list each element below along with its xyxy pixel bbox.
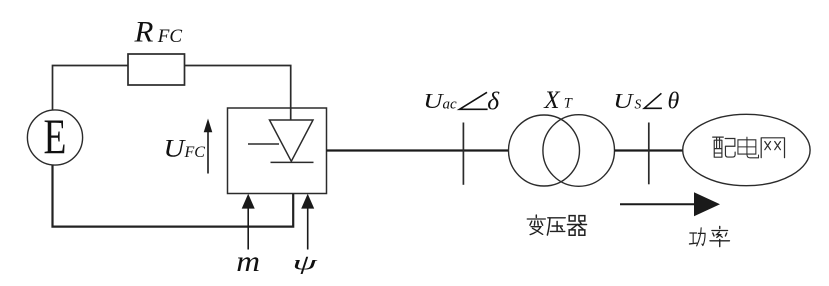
svg-text:θ: θ	[668, 89, 680, 115]
power label CJK gong-lv (power)	[689, 226, 729, 246]
wire converter to transformer (ac bus)	[327, 149, 509, 151]
transformer label CJK bian-ya-qi (transformer)	[527, 215, 586, 235]
node bus bar Us	[648, 123, 650, 185]
svg-text:FC: FC	[157, 26, 183, 47]
svg-text:E: E	[44, 109, 67, 164]
svg-text:X: X	[543, 87, 561, 114]
char dian	[738, 137, 759, 158]
svg-text:ψ: ψ	[293, 250, 319, 274]
char wang	[761, 138, 784, 158]
transformer T1 secondary winding	[543, 115, 615, 187]
char pei	[713, 137, 735, 157]
node bus bar Uac	[462, 123, 464, 185]
svg-text:R: R	[133, 15, 153, 48]
transformer label XT	[543, 87, 573, 114]
power flow arrow	[620, 192, 720, 216]
UFC label	[164, 134, 186, 162]
label Uac angle delta	[423, 87, 500, 116]
converter cathode bar	[271, 161, 314, 163]
control arrow m	[242, 194, 255, 250]
transformer T1 primary winding	[509, 115, 580, 186]
char lv	[710, 226, 729, 246]
source E label	[44, 109, 67, 164]
label Us angle theta	[613, 89, 679, 115]
UFC arrow	[204, 119, 213, 174]
wire E bottom return to converter	[53, 165, 294, 227]
svg-text:T: T	[564, 96, 573, 112]
svg-text:FC: FC	[184, 144, 206, 161]
wire transformer to grid	[615, 149, 683, 151]
wire resistor to converter top	[185, 66, 291, 121]
grid ellipse	[683, 114, 810, 185]
svg-text:m: m	[236, 244, 260, 277]
char qi	[567, 216, 586, 236]
control arrow psi	[301, 194, 314, 250]
char gong	[689, 228, 705, 246]
resistor R1 body	[128, 54, 185, 85]
converter thyristor triangle	[270, 120, 314, 161]
svg-text:U: U	[164, 134, 186, 162]
source E circle U1	[27, 110, 82, 165]
wire E top to resistor	[53, 66, 129, 111]
svg-text:U: U	[613, 89, 634, 113]
svg-text:S: S	[635, 97, 642, 112]
converter gate line	[248, 143, 279, 145]
grid label CJK pei-dian-wang (distribution network)	[713, 137, 785, 158]
char bian	[527, 215, 545, 235]
svg-text:δ: δ	[487, 87, 500, 116]
svg-text:U: U	[423, 90, 444, 114]
converter box U2	[228, 108, 327, 194]
char ya	[547, 218, 565, 235]
svg-text:ac: ac	[443, 97, 458, 113]
label m	[236, 244, 260, 277]
resistor R1 value label RFC	[133, 15, 153, 48]
label psi	[293, 250, 319, 274]
